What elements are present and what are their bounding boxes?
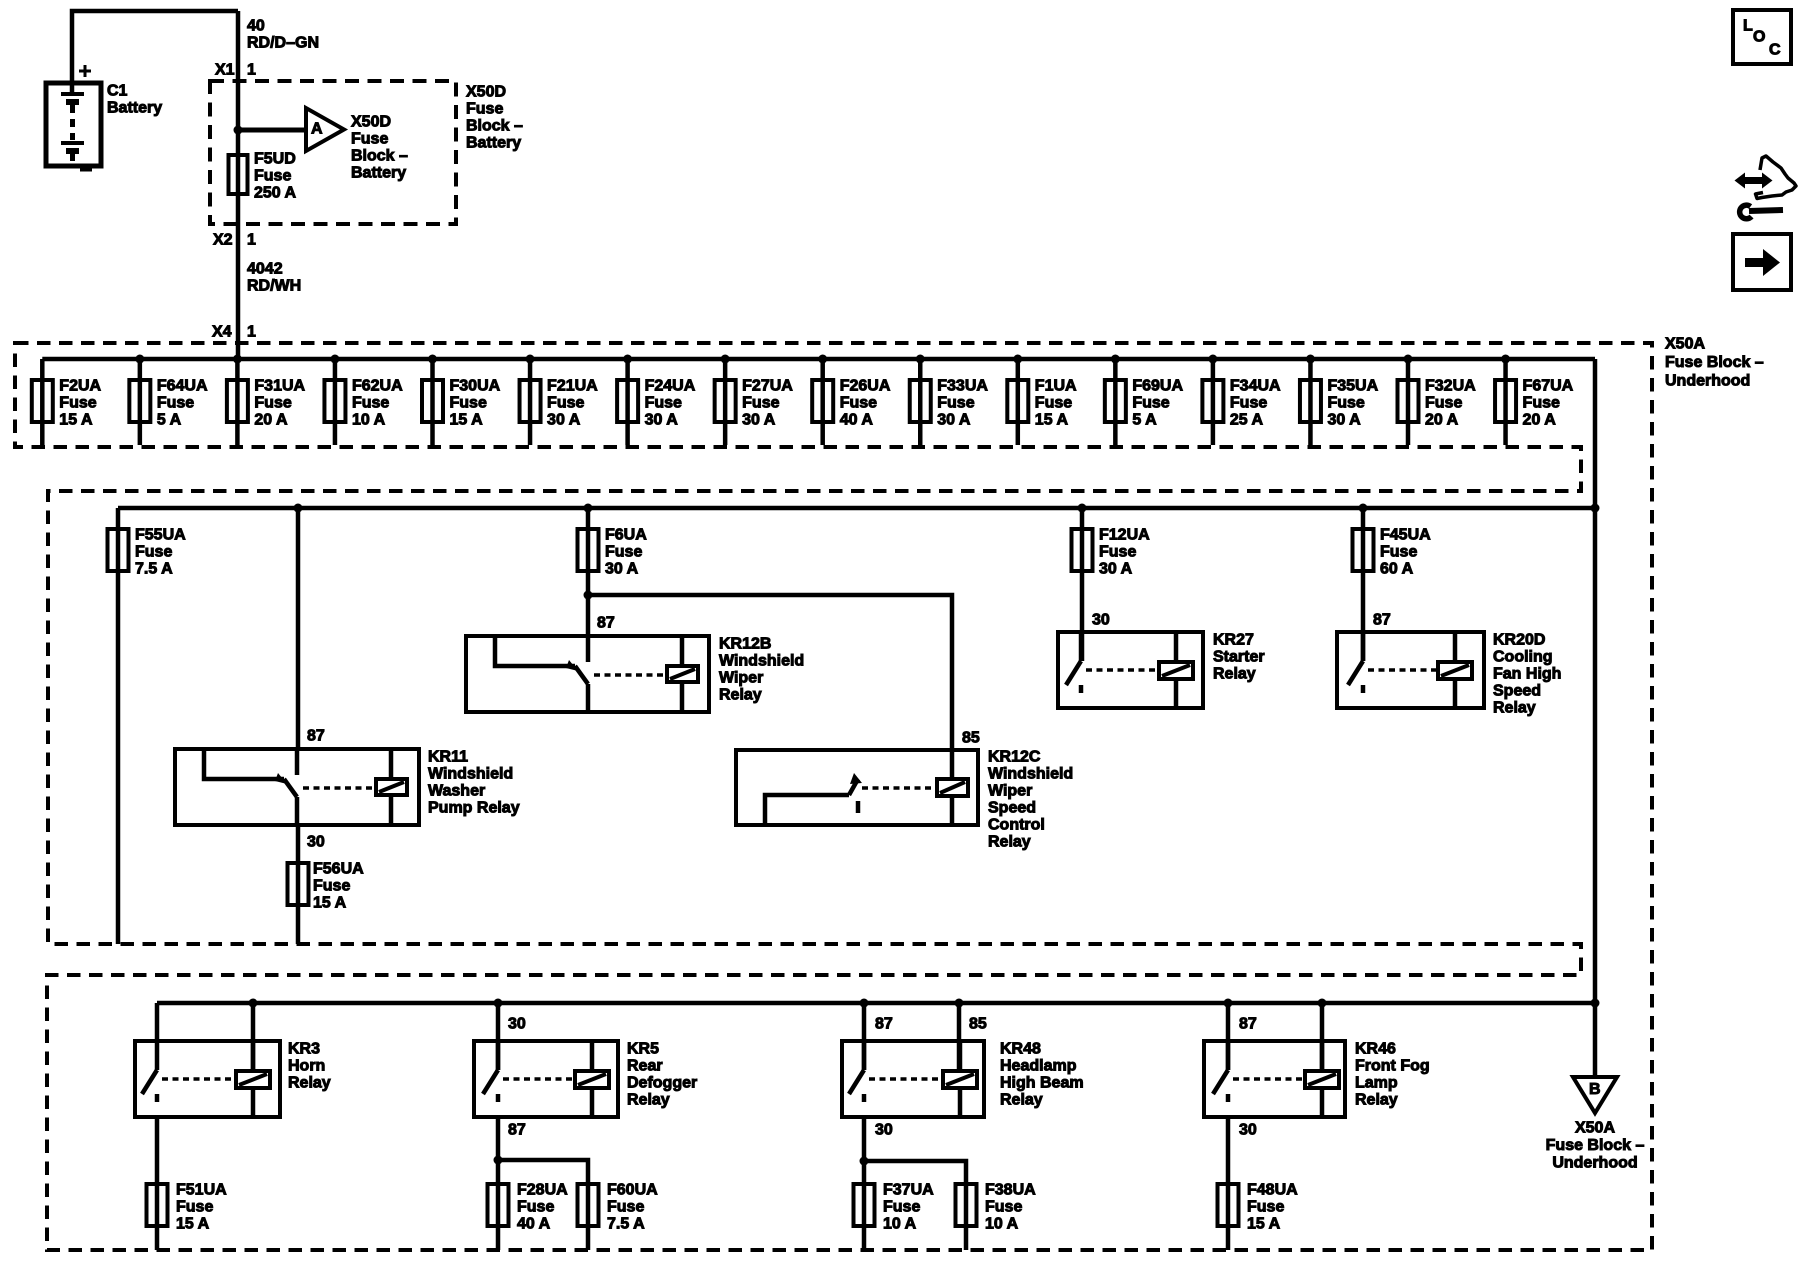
node on bus at F34UA	[1208, 355, 1217, 364]
svg-text:20 A: 20 A	[1523, 412, 1557, 429]
bus wire: right vertical feed	[1593, 359, 1598, 1077]
svg-text:KR48: KR48	[1000, 1041, 1041, 1058]
svg-text:30: 30	[1239, 1122, 1257, 1139]
node KR5	[494, 999, 503, 1008]
svg-text:15 A: 15 A	[313, 895, 347, 912]
svg-text:KR27: KR27	[1213, 632, 1254, 649]
svg-text:Battery: Battery	[351, 165, 406, 182]
svg-text:High Beam: High Beam	[1000, 1075, 1084, 1092]
node: right bus row3	[1591, 999, 1600, 1008]
fuse F27UA 30 A	[715, 380, 736, 422]
svg-text:Fuse: Fuse	[645, 395, 682, 412]
svg-text:Fuse: Fuse	[605, 544, 642, 561]
wire: KR3 to F51UA	[155, 1117, 160, 1250]
fuse F30UA 15 A	[422, 380, 443, 422]
node KR48 coil	[955, 999, 964, 1008]
svg-text:Wiper: Wiper	[988, 783, 1032, 800]
svg-text:Speed: Speed	[988, 800, 1036, 817]
svg-text:Fuse: Fuse	[517, 1199, 554, 1216]
wire: KR48 to fuses	[862, 1117, 867, 1250]
svg-text:F45UA: F45UA	[1380, 527, 1431, 544]
svg-text:RD/WH: RD/WH	[247, 278, 301, 295]
node on bus at F31UA	[233, 355, 242, 364]
wire for F27UA	[723, 359, 728, 445]
svg-text:X1: X1	[215, 62, 235, 79]
relay KR5 Rear Defogger Relay	[474, 1041, 618, 1117]
svg-text:F30UA: F30UA	[450, 378, 501, 395]
svg-text:1: 1	[247, 324, 256, 341]
node: F6UA split	[584, 591, 593, 600]
svg-text:Relay: Relay	[988, 834, 1031, 851]
svg-text:Fuse: Fuse	[254, 395, 291, 412]
fuse F32UA 20 A	[1398, 380, 1419, 422]
svg-text:KR20D: KR20D	[1493, 632, 1545, 649]
node on bus at F27UA	[721, 355, 730, 364]
svg-text:Lamp: Lamp	[1355, 1075, 1398, 1092]
wire: KR5 pin feed	[496, 1003, 501, 1070]
wire for F31UA	[235, 359, 240, 445]
icon: forward arrow box	[1733, 234, 1791, 290]
svg-text:O: O	[1753, 29, 1765, 46]
svg-text:Battery: Battery	[466, 135, 521, 152]
svg-text:Speed: Speed	[1493, 683, 1541, 700]
svg-text:X2: X2	[213, 232, 233, 249]
svg-text:Relay: Relay	[627, 1092, 670, 1109]
svg-text:F35UA: F35UA	[1327, 378, 1378, 395]
wire: F38UA lower	[964, 1184, 969, 1250]
svg-text:Relay: Relay	[1493, 700, 1536, 717]
wire for F32UA	[1406, 359, 1411, 445]
svg-text:F69UA: F69UA	[1132, 378, 1183, 395]
relay KR20D Cooling Fan High Speed Relay	[1337, 632, 1484, 708]
wire for F24UA	[625, 359, 630, 445]
svg-text:10 A: 10 A	[883, 1216, 917, 1233]
svg-text:KR12C: KR12C	[988, 749, 1041, 766]
wire: KR11 feed	[296, 508, 301, 749]
svg-text:Battery: Battery	[107, 100, 162, 117]
svg-text:Control: Control	[988, 817, 1045, 834]
node on bus at F69UA	[1111, 355, 1120, 364]
wire: KR46 pin feed	[1226, 1003, 1231, 1070]
svg-text:Fuse: Fuse	[1380, 544, 1417, 561]
svg-text:Relay: Relay	[1213, 666, 1256, 683]
svg-text:87: 87	[508, 1122, 526, 1139]
svg-text:F31UA: F31UA	[254, 378, 305, 395]
svg-text:15 A: 15 A	[59, 412, 93, 429]
svg-text:10 A: 10 A	[352, 412, 386, 429]
relay KR3 Horn Relay	[135, 1041, 280, 1117]
svg-text:X50A: X50A	[1575, 1120, 1615, 1137]
svg-text:F1UA: F1UA	[1035, 378, 1077, 395]
wire: KR46 coil feed	[1320, 1003, 1325, 1071]
svg-text:KR5: KR5	[627, 1041, 659, 1058]
wire for F69UA	[1113, 359, 1118, 445]
svg-text:Fuse: Fuse	[985, 1199, 1022, 1216]
svg-text:Fuse: Fuse	[1327, 395, 1364, 412]
svg-text:20 A: 20 A	[254, 412, 288, 429]
fuse F6UA 30 A	[578, 529, 599, 571]
wire: KR3 pin feed	[155, 1003, 160, 1041]
svg-text:Windshield: Windshield	[988, 766, 1073, 783]
node on bus at F26UA	[818, 355, 827, 364]
svg-text:85: 85	[969, 1016, 987, 1033]
svg-text:F55UA: F55UA	[135, 527, 186, 544]
node KR3 coil	[249, 999, 258, 1008]
wire: across to F60UA	[498, 1160, 588, 1184]
node on bus at F21UA	[526, 355, 535, 364]
node KR46 pin	[1224, 999, 1233, 1008]
fuse F2UA 15 A	[32, 380, 53, 422]
fuse F26UA 40 A	[812, 380, 833, 422]
node: right bus row2	[1591, 504, 1600, 513]
node on bus at F62UA	[330, 355, 339, 364]
svg-text:Fuse Block –: Fuse Block –	[1546, 1137, 1645, 1154]
off-page connector A	[306, 108, 344, 151]
svg-text:F32UA: F32UA	[1425, 378, 1476, 395]
fuse F34UA 25 A	[1202, 380, 1223, 422]
svg-text:KR46: KR46	[1355, 1041, 1396, 1058]
relay KR12B Windshield Wiper Relay	[466, 636, 709, 712]
svg-text:1: 1	[247, 232, 256, 249]
svg-text:F21UA: F21UA	[547, 378, 598, 395]
svg-text:Fuse: Fuse	[607, 1199, 644, 1216]
wire: KR11 to F56UA	[296, 825, 301, 944]
wire for F26UA	[820, 359, 825, 445]
fuse F62UA 10 A	[324, 380, 345, 422]
svg-text:7.5 A: 7.5 A	[135, 561, 173, 578]
node on bus at F1UA	[1013, 355, 1022, 364]
svg-text:Block –: Block –	[466, 118, 523, 135]
svg-text:Headlamp: Headlamp	[1000, 1058, 1077, 1075]
svg-text:F12UA: F12UA	[1099, 527, 1150, 544]
relay KR46 Front Fog Lamp Relay	[1204, 1041, 1345, 1117]
svg-text:Underhood: Underhood	[1665, 373, 1750, 390]
svg-text:Fuse: Fuse	[1425, 395, 1462, 412]
fuse F38UA 10 A	[956, 1184, 977, 1226]
fuse F28UA 40 A	[488, 1184, 509, 1226]
svg-text:15 A: 15 A	[450, 412, 484, 429]
svg-text:Windshield: Windshield	[719, 653, 804, 670]
svg-text:X50D: X50D	[466, 84, 506, 101]
off-page connector B	[1573, 1077, 1617, 1113]
wire for F64UA	[138, 359, 143, 445]
svg-text:Fuse: Fuse	[1247, 1199, 1284, 1216]
svg-text:Fuse: Fuse	[937, 395, 974, 412]
wire for F21UA	[528, 359, 533, 445]
fuse F35UA 30 A	[1300, 380, 1321, 422]
fuse F33UA 30 A	[910, 380, 931, 422]
svg-text:Fuse: Fuse	[1099, 544, 1136, 561]
svg-text:30: 30	[875, 1122, 893, 1139]
node on bus at F35UA	[1306, 355, 1315, 364]
svg-text:Rear: Rear	[627, 1058, 663, 1075]
svg-text:87: 87	[307, 728, 325, 745]
fuse F64UA 5 A	[129, 380, 150, 422]
svg-text:Relay: Relay	[1000, 1092, 1043, 1109]
svg-text:30 A: 30 A	[742, 412, 776, 429]
svg-text:30 A: 30 A	[1327, 412, 1361, 429]
node on bus at F33UA	[916, 355, 925, 364]
wire: F12UA / KR27 branch	[1080, 508, 1085, 661]
svg-text:F38UA: F38UA	[985, 1182, 1036, 1199]
node F45UA	[1359, 504, 1368, 513]
node on bus at F67UA	[1501, 355, 1510, 364]
svg-text:X4: X4	[212, 324, 232, 341]
relay KR11 Windshield Washer Pump Relay	[175, 749, 419, 825]
svg-text:Pump Relay: Pump Relay	[428, 800, 520, 817]
wire: KR46 to F48UA	[1226, 1117, 1231, 1250]
fuse F51UA 15 A	[147, 1184, 168, 1226]
svg-text:Fuse: Fuse	[547, 395, 584, 412]
wire: KR48 coil feed	[957, 1003, 962, 1071]
fuse F69UA 5 A	[1105, 380, 1126, 422]
svg-text:Fuse: Fuse	[883, 1199, 920, 1216]
svg-text:60 A: 60 A	[1380, 561, 1414, 578]
svg-text:1: 1	[247, 62, 256, 79]
svg-text:F24UA: F24UA	[645, 378, 696, 395]
fuse F45UA 60 A	[1353, 529, 1374, 571]
svg-text:87: 87	[1373, 612, 1391, 629]
svg-text:RD/D–GN: RD/D–GN	[247, 35, 319, 52]
icon: LOC box	[1733, 10, 1791, 64]
svg-text:F48UA: F48UA	[1247, 1182, 1298, 1199]
wire: F55UA branch	[116, 508, 121, 944]
node on bus at F24UA	[623, 355, 632, 364]
svg-text:Relay: Relay	[719, 687, 762, 704]
svg-text:87: 87	[597, 615, 615, 632]
wire: F45UA / KR20D branch	[1361, 508, 1366, 661]
wire: KR48 pin feed	[862, 1003, 867, 1070]
wire: battery positive to X1	[72, 11, 238, 93]
fuse block X50D dashed box	[210, 81, 456, 224]
svg-text:Front Fog: Front Fog	[1355, 1058, 1430, 1075]
node: junction to A	[234, 126, 243, 135]
wire for F1UA	[1016, 359, 1021, 445]
wire: F60UA lower	[586, 1184, 591, 1250]
node KR5 fuse split	[494, 1156, 503, 1165]
svg-text:KR12B: KR12B	[719, 636, 771, 653]
svg-text:Fuse: Fuse	[1035, 395, 1072, 412]
svg-text:15 A: 15 A	[1035, 412, 1069, 429]
wire for F2UA	[40, 359, 45, 445]
svg-text:250 A: 250 A	[254, 185, 297, 202]
svg-text:Horn: Horn	[288, 1058, 325, 1075]
svg-text:F26UA: F26UA	[840, 378, 891, 395]
svg-text:F37UA: F37UA	[883, 1182, 934, 1199]
svg-text:30 A: 30 A	[645, 412, 679, 429]
svg-text:F56UA: F56UA	[313, 861, 364, 878]
svg-text:30: 30	[508, 1016, 526, 1033]
svg-text:87: 87	[1239, 1016, 1257, 1033]
relay KR12C Windshield Wiper Speed Control Relay	[736, 750, 978, 825]
relay KR27 Starter Relay	[1058, 632, 1203, 708]
bus wire: fuse row feed	[42, 357, 1595, 362]
wire for F35UA	[1308, 359, 1313, 445]
svg-text:F5UD: F5UD	[254, 151, 296, 168]
svg-text:30: 30	[1092, 612, 1110, 629]
svg-text:Fuse: Fuse	[59, 395, 96, 412]
fuse F24UA 30 A	[617, 380, 638, 422]
svg-text:Wiper: Wiper	[719, 670, 763, 687]
node on bus at F32UA	[1404, 355, 1413, 364]
wire: across to F38UA	[864, 1161, 966, 1184]
svg-text:Fuse: Fuse	[466, 101, 503, 118]
svg-text:Fuse: Fuse	[254, 168, 291, 185]
fuse F21UA 30 A	[520, 380, 541, 422]
fuse F1UA 15 A	[1007, 380, 1028, 422]
svg-text:Fuse: Fuse	[1523, 395, 1560, 412]
svg-text:4042: 4042	[247, 261, 283, 278]
svg-text:Fuse: Fuse	[352, 395, 389, 412]
svg-text:40 A: 40 A	[517, 1216, 551, 1233]
svg-text:C1: C1	[107, 83, 128, 100]
svg-text:L: L	[1743, 18, 1753, 35]
svg-text:Fuse: Fuse	[351, 131, 388, 148]
svg-text:85: 85	[962, 730, 980, 747]
wire for F67UA	[1503, 359, 1508, 445]
fuse F12UA 30 A	[1072, 529, 1093, 571]
wire: X1 vertical feed down to fuse block bus	[236, 11, 241, 359]
svg-text:15 A: 15 A	[176, 1216, 210, 1233]
wire: KR3 coil feed	[251, 1003, 256, 1071]
wire for F62UA	[333, 359, 338, 445]
svg-text:KR11: KR11	[428, 749, 468, 766]
svg-text:B: B	[1589, 1081, 1601, 1098]
svg-text:F64UA: F64UA	[157, 378, 208, 395]
svg-text:40: 40	[247, 18, 265, 35]
svg-text:25 A: 25 A	[1230, 412, 1264, 429]
svg-text:Starter: Starter	[1213, 649, 1265, 666]
svg-text:X50D: X50D	[351, 114, 391, 131]
svg-text:F33UA: F33UA	[937, 378, 988, 395]
bus wire: second row feed	[118, 506, 1595, 511]
svg-text:Fuse: Fuse	[742, 395, 779, 412]
svg-text:Defogger: Defogger	[627, 1075, 697, 1092]
node on bus at F64UA	[135, 355, 144, 364]
node KR48 fuse split	[860, 1157, 869, 1166]
bus wire: third row feed	[157, 1001, 1595, 1006]
svg-text:Relay: Relay	[1355, 1092, 1398, 1109]
svg-text:Fuse: Fuse	[840, 395, 877, 412]
wire: across to KR12C coil	[588, 595, 952, 779]
wire for F33UA	[918, 359, 923, 445]
relay KR48 Headlamp High Beam Relay	[842, 1041, 984, 1117]
node KR46 coil	[1318, 999, 1327, 1008]
fuse F37UA 10 A	[854, 1184, 875, 1226]
svg-text:30 A: 30 A	[1099, 561, 1133, 578]
svg-text:30: 30	[307, 834, 325, 851]
node KR11 feed	[294, 504, 303, 513]
svg-text:30 A: 30 A	[605, 561, 639, 578]
battery C1	[46, 65, 101, 170]
svg-text:5 A: 5 A	[157, 412, 182, 429]
wire: F6UA branch	[586, 508, 591, 636]
svg-text:KR3: KR3	[288, 1041, 320, 1058]
svg-text:Fuse: Fuse	[1230, 395, 1267, 412]
svg-text:30 A: 30 A	[547, 412, 581, 429]
svg-text:Fuse Block –: Fuse Block –	[1665, 354, 1764, 371]
svg-text:Relay: Relay	[288, 1075, 331, 1092]
svg-text:Fuse: Fuse	[313, 878, 350, 895]
svg-text:5 A: 5 A	[1132, 412, 1157, 429]
svg-text:15 A: 15 A	[1247, 1216, 1281, 1233]
svg-text:7.5 A: 7.5 A	[607, 1216, 645, 1233]
fuse F56UA 15 A	[288, 863, 309, 905]
svg-text:F6UA: F6UA	[605, 527, 647, 544]
svg-text:X50A: X50A	[1665, 336, 1705, 353]
svg-text:Windshield: Windshield	[428, 766, 513, 783]
fuse block X50A Underhood dashed boundary	[15, 343, 1652, 1250]
icon: vehicle view with arrow and wrench	[1735, 156, 1797, 219]
svg-text:C: C	[1769, 42, 1781, 59]
svg-text:20 A: 20 A	[1425, 412, 1459, 429]
svg-text:87: 87	[875, 1016, 893, 1033]
node F6UA	[584, 504, 593, 513]
fuse F31UA 20 A	[227, 380, 248, 422]
svg-text:Fuse: Fuse	[157, 395, 194, 412]
wire: KR5 to fuses	[496, 1117, 501, 1250]
svg-text:F67UA: F67UA	[1523, 378, 1574, 395]
fuse F48UA 15 A	[1218, 1184, 1239, 1226]
svg-text:F34UA: F34UA	[1230, 378, 1281, 395]
svg-text:Fuse: Fuse	[450, 395, 487, 412]
fuse F60UA 7.5 A	[578, 1184, 599, 1226]
node on bus at F30UA	[428, 355, 437, 364]
svg-text:F51UA: F51UA	[176, 1182, 227, 1199]
wire for F30UA	[430, 359, 435, 445]
node F12UA	[1078, 504, 1087, 513]
svg-text:Fuse: Fuse	[176, 1199, 213, 1216]
svg-text:F28UA: F28UA	[517, 1182, 568, 1199]
svg-text:40 A: 40 A	[840, 412, 874, 429]
wire for F34UA	[1211, 359, 1216, 445]
svg-text:A: A	[311, 121, 323, 138]
svg-text:F2UA: F2UA	[59, 378, 101, 395]
svg-text:F27UA: F27UA	[742, 378, 793, 395]
svg-text:Fuse: Fuse	[135, 544, 172, 561]
node KR48 pin	[860, 999, 869, 1008]
fuse F55UA 7.5 A	[108, 529, 129, 571]
svg-text:Washer: Washer	[428, 783, 485, 800]
svg-text:30 A: 30 A	[937, 412, 971, 429]
wire to triangle A	[238, 128, 306, 133]
fuse F67UA 20 A	[1495, 380, 1516, 422]
svg-text:Block –: Block –	[351, 148, 408, 165]
fuse F5UD 250 A	[229, 155, 248, 194]
svg-text:F62UA: F62UA	[352, 378, 403, 395]
svg-text:Cooling: Cooling	[1493, 649, 1553, 666]
svg-text:10 A: 10 A	[985, 1216, 1019, 1233]
svg-text:Fan High: Fan High	[1493, 666, 1561, 683]
svg-text:F60UA: F60UA	[607, 1182, 658, 1199]
svg-text:Fuse: Fuse	[1132, 395, 1169, 412]
svg-text:Underhood: Underhood	[1552, 1155, 1637, 1172]
